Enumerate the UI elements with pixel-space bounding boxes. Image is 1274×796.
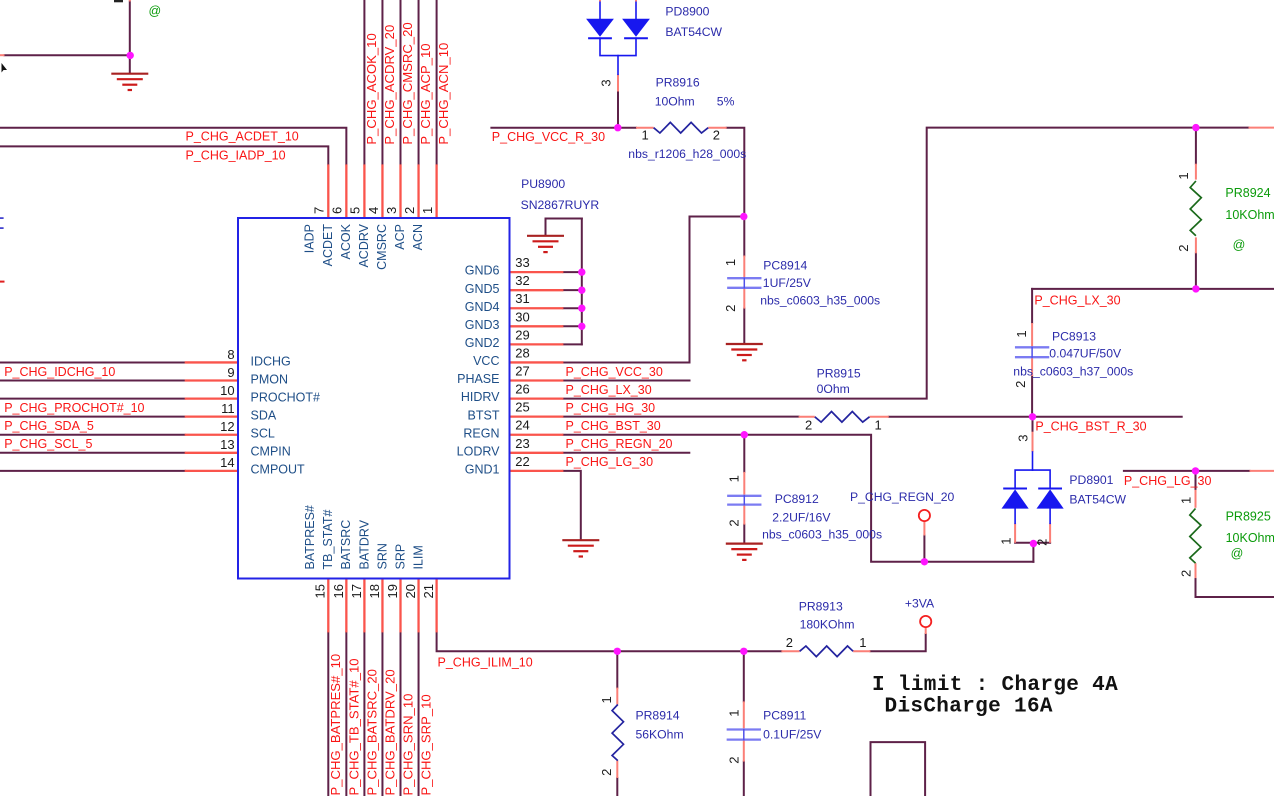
- svg-text:DisCharge 16A: DisCharge 16A: [885, 696, 1053, 719]
- svg-text:SN2867RUYR: SN2867RUYR: [521, 198, 600, 212]
- svg-text:2: 2: [713, 128, 720, 143]
- svg-text:BATDRV: BATDRV: [357, 519, 371, 569]
- svg-text:20: 20: [403, 584, 418, 598]
- svg-text:3: 3: [1016, 435, 1031, 442]
- svg-text:29: 29: [515, 327, 529, 342]
- svg-text:P_CHG_LX_30: P_CHG_LX_30: [566, 383, 652, 397]
- svg-text:SCL: SCL: [251, 427, 275, 441]
- svg-text:1: 1: [875, 418, 882, 433]
- svg-text:P_CHG_SDA_5: P_CHG_SDA_5: [4, 419, 94, 433]
- svg-text:5: 5: [348, 207, 363, 214]
- svg-text:0.1UF/25V: 0.1UF/25V: [763, 727, 822, 741]
- svg-text:1: 1: [726, 475, 741, 482]
- svg-text:PR8924: PR8924: [1225, 186, 1270, 200]
- svg-text:nbs_c0603_h37_000s: nbs_c0603_h37_000s: [1013, 364, 1133, 378]
- svg-text:15: 15: [313, 584, 328, 598]
- svg-text:1: 1: [1014, 330, 1029, 337]
- svg-text:P_CHG_LX_30: P_CHG_LX_30: [1034, 294, 1120, 308]
- svg-text:PC8913: PC8913: [1052, 329, 1096, 343]
- svg-text:2: 2: [805, 418, 812, 433]
- svg-text:33: 33: [515, 255, 529, 270]
- svg-text:4: 4: [366, 207, 381, 214]
- svg-text:P_CHG_BST_R_30: P_CHG_BST_R_30: [1035, 419, 1146, 433]
- svg-text:3: 3: [599, 79, 614, 86]
- svg-text:28: 28: [515, 345, 529, 360]
- svg-text:0Ohm: 0Ohm: [817, 382, 850, 396]
- svg-text:24: 24: [515, 418, 529, 433]
- svg-text:2: 2: [402, 207, 417, 214]
- svg-text:31: 31: [515, 291, 529, 306]
- svg-text:P_CHG_IDCHG_10: P_CHG_IDCHG_10: [4, 365, 115, 379]
- svg-text:VCC: VCC: [473, 354, 499, 368]
- svg-text:10: 10: [220, 383, 234, 398]
- svg-text:BAT54CW: BAT54CW: [1069, 493, 1126, 507]
- svg-text:I limit : Charge 4A: I limit : Charge 4A: [872, 674, 1118, 697]
- svg-text:P_CHG_BST_30: P_CHG_BST_30: [566, 419, 661, 433]
- svg-text:P_CHG_ACN_10: P_CHG_ACN_10: [436, 43, 451, 145]
- svg-text:2: 2: [726, 519, 741, 526]
- svg-text:7: 7: [312, 207, 327, 214]
- svg-text:2: 2: [599, 769, 614, 776]
- svg-text:1: 1: [1176, 172, 1191, 179]
- svg-text:ACP: ACP: [393, 224, 407, 250]
- svg-text:BAT54CW: BAT54CW: [665, 25, 722, 39]
- svg-text:nbs_c0603_h35_000s: nbs_c0603_h35_000s: [762, 528, 882, 542]
- svg-text:P_CHG_ACDRV_20: P_CHG_ACDRV_20: [382, 25, 397, 145]
- svg-text:P_CHG_BATSRC_20: P_CHG_BATSRC_20: [364, 669, 379, 795]
- svg-text:1UF/25V: 1UF/25V: [763, 276, 812, 290]
- svg-text:nbs_r1206_h28_000s: nbs_r1206_h28_000s: [628, 147, 746, 161]
- svg-text:BATSRC: BATSRC: [339, 520, 353, 570]
- svg-text:PMON: PMON: [251, 372, 289, 386]
- svg-text:2: 2: [1013, 381, 1028, 388]
- svg-text:GND2: GND2: [465, 336, 500, 350]
- svg-text:PD8901: PD8901: [1069, 473, 1113, 487]
- svg-text:2: 2: [1179, 570, 1194, 577]
- svg-text:@: @: [1233, 238, 1246, 252]
- svg-text:17: 17: [349, 584, 364, 598]
- svg-text:BATPRES#: BATPRES#: [303, 505, 317, 569]
- svg-text:2.2UF/16V: 2.2UF/16V: [772, 510, 831, 524]
- svg-text:P_CHG_HG_30: P_CHG_HG_30: [566, 401, 656, 415]
- svg-text:1: 1: [1179, 497, 1194, 504]
- svg-text:GND5: GND5: [465, 282, 500, 296]
- svg-text:12: 12: [220, 419, 234, 434]
- svg-text:22: 22: [515, 454, 529, 469]
- svg-text:ACOK: ACOK: [339, 223, 353, 259]
- svg-text:PC8911: PC8911: [763, 709, 806, 723]
- svg-text:P_CHG_SRN_10: P_CHG_SRN_10: [401, 694, 416, 796]
- svg-text:P_CHG_SRP_10: P_CHG_SRP_10: [419, 694, 434, 795]
- svg-text:32: 32: [515, 273, 529, 288]
- svg-text:PR8913: PR8913: [799, 600, 843, 614]
- svg-text:1: 1: [727, 709, 742, 716]
- svg-text:GND6: GND6: [465, 264, 500, 278]
- svg-text:10Ohm: 10Ohm: [655, 94, 695, 108]
- svg-text:CMPOUT: CMPOUT: [251, 463, 306, 477]
- svg-text:TB_STAT#: TB_STAT#: [321, 509, 335, 569]
- svg-text:10KOhm: 10KOhm: [1226, 531, 1274, 545]
- svg-text:CMPIN: CMPIN: [251, 445, 291, 459]
- svg-text:27: 27: [515, 364, 529, 379]
- svg-text:P_CHG_BATPRES#_10: P_CHG_BATPRES#_10: [328, 654, 343, 796]
- svg-text:ACDRV: ACDRV: [357, 223, 371, 267]
- svg-text:REGN: REGN: [463, 426, 499, 440]
- svg-text:P_CHG_VCC_30: P_CHG_VCC_30: [566, 365, 663, 379]
- svg-text:PC8914: PC8914: [763, 258, 807, 272]
- svg-text:P_CHG_LG_30: P_CHG_LG_30: [1124, 474, 1212, 488]
- svg-text:ACN: ACN: [411, 224, 425, 250]
- svg-text:2: 2: [1035, 539, 1050, 546]
- svg-text:nbs_c0603_h35_000s: nbs_c0603_h35_000s: [760, 294, 880, 308]
- svg-text:+3VA: +3VA: [905, 597, 935, 611]
- svg-text:P_CHG_REGN_20: P_CHG_REGN_20: [850, 490, 955, 504]
- svg-text:P_CHG_ACP_10: P_CHG_ACP_10: [418, 43, 433, 144]
- svg-text:9: 9: [227, 365, 234, 380]
- svg-text:PROCHOT#: PROCHOT#: [251, 390, 321, 404]
- svg-text:@: @: [149, 4, 162, 18]
- svg-text:LODRV: LODRV: [457, 444, 501, 458]
- svg-text:2: 2: [723, 305, 738, 312]
- svg-text:P_CHG_BATDRV_20: P_CHG_BATDRV_20: [383, 669, 398, 795]
- svg-text:P_CHG_IADP_10: P_CHG_IADP_10: [186, 148, 286, 162]
- svg-text:26: 26: [515, 382, 529, 397]
- svg-text:GND1: GND1: [465, 462, 500, 476]
- svg-text:P_CHG_CMSRC_20: P_CHG_CMSRC_20: [400, 22, 415, 144]
- svg-text:P_CHG_ILIM_10: P_CHG_ILIM_10: [438, 655, 533, 669]
- svg-text:1: 1: [859, 635, 866, 650]
- svg-text:23: 23: [515, 436, 529, 451]
- svg-text:2: 2: [1176, 245, 1191, 252]
- svg-text:PR8914: PR8914: [636, 709, 680, 723]
- svg-text:P_CHG_SCL_5: P_CHG_SCL_5: [4, 437, 92, 451]
- svg-text:1: 1: [420, 207, 435, 214]
- svg-text:PU8900: PU8900: [521, 177, 565, 191]
- svg-text:2: 2: [727, 756, 742, 763]
- svg-text:ACDET: ACDET: [321, 224, 335, 267]
- svg-text:P_CHG_ACDET_10: P_CHG_ACDET_10: [186, 130, 299, 144]
- svg-text:30: 30: [515, 309, 529, 324]
- svg-text:PR8925: PR8925: [1226, 510, 1271, 524]
- svg-text:@: @: [1231, 547, 1244, 561]
- svg-text:BTST: BTST: [468, 408, 500, 422]
- svg-text:56KOhm: 56KOhm: [636, 727, 684, 741]
- svg-text:11: 11: [221, 401, 235, 416]
- svg-text:14: 14: [220, 455, 234, 470]
- svg-text:13: 13: [220, 437, 234, 452]
- svg-text:16: 16: [331, 584, 346, 598]
- svg-text:0.047UF/50V: 0.047UF/50V: [1049, 347, 1122, 361]
- svg-text:6: 6: [330, 207, 345, 214]
- svg-text:IDCHG: IDCHG: [251, 354, 291, 368]
- svg-text:PC8912: PC8912: [775, 492, 819, 506]
- svg-text:1: 1: [599, 696, 614, 703]
- svg-text:1: 1: [642, 128, 649, 143]
- svg-text:P_CHG_PROCHOT#_10: P_CHG_PROCHOT#_10: [4, 401, 144, 415]
- svg-text:19: 19: [385, 584, 400, 598]
- svg-text:HIDRV: HIDRV: [461, 390, 500, 404]
- svg-text:180KOhm: 180KOhm: [800, 618, 855, 632]
- svg-text:PD8900: PD8900: [665, 5, 709, 19]
- svg-text:SRN: SRN: [375, 543, 389, 569]
- svg-text:18: 18: [367, 584, 382, 598]
- svg-text:21: 21: [421, 584, 436, 598]
- svg-text:PR8916: PR8916: [656, 75, 700, 89]
- svg-text:3: 3: [384, 207, 399, 214]
- svg-text:1: 1: [723, 259, 738, 266]
- svg-text:5%: 5%: [717, 94, 735, 108]
- svg-text:8: 8: [227, 347, 234, 362]
- svg-text:GND3: GND3: [465, 318, 500, 332]
- svg-text:P_CHG_LG_30: P_CHG_LG_30: [566, 455, 654, 469]
- svg-text:P_CHG_ACOK_10: P_CHG_ACOK_10: [364, 33, 379, 144]
- svg-text:2: 2: [786, 635, 793, 650]
- svg-text:P_CHG_REGN_20: P_CHG_REGN_20: [566, 437, 673, 451]
- svg-text:10KOhm: 10KOhm: [1225, 208, 1274, 222]
- svg-text:GND4: GND4: [465, 300, 500, 314]
- svg-text:ILIM: ILIM: [411, 545, 425, 569]
- svg-text:IADP: IADP: [303, 224, 317, 253]
- svg-text:SRP: SRP: [393, 544, 407, 570]
- svg-text:1: 1: [999, 538, 1014, 545]
- svg-text:PHASE: PHASE: [457, 372, 499, 386]
- svg-text:P_CHG_VCC_R_30: P_CHG_VCC_R_30: [492, 130, 605, 144]
- svg-text:CMSRC: CMSRC: [375, 224, 389, 270]
- svg-text:PR8915: PR8915: [817, 367, 861, 381]
- svg-text:25: 25: [515, 400, 529, 415]
- svg-text:P_CHG_TB_STAT#_10: P_CHG_TB_STAT#_10: [346, 658, 361, 795]
- svg-text:SDA: SDA: [251, 408, 277, 422]
